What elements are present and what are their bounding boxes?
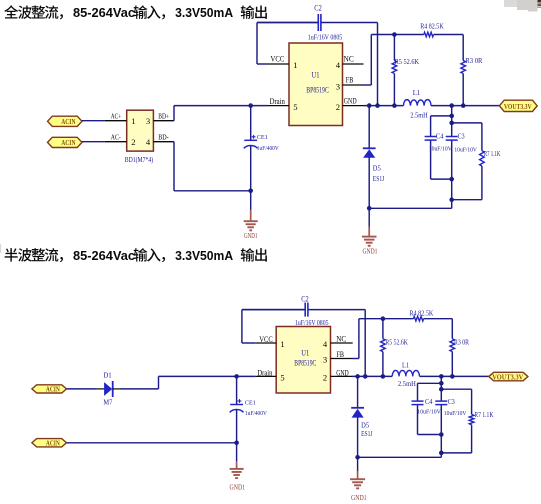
svg-text:1: 1 [280,339,284,349]
svg-text:4: 4 [146,137,151,147]
svg-text:GND: GND [344,96,357,105]
wire bottom rail bottom-circuit [358,456,442,458]
svg-text:1uF/400V: 1uF/400V [245,410,267,417]
ground GND1 under CE1 bottom [236,443,238,461]
svg-text:3: 3 [336,81,340,91]
C filter branch bottom [440,376,442,383]
resistor R7 bottom (1.1K) [471,389,473,414]
svg-text:2.5mH: 2.5mH [398,380,416,388]
junction C4 bottom [449,177,454,182]
resistor R7 (1.1K) [481,123,483,151]
wire ACIN2 rail [67,442,237,444]
svg-text:D1: D1 [103,372,112,380]
svg-text:10uF/10V: 10uF/10V [444,410,467,417]
svg-text:2.5mH: 2.5mH [410,112,427,120]
wire C2 right to rail [377,23,379,106]
port ACIN top1 [48,116,83,126]
op-amp U1 bottom (BP8519C) [276,327,330,394]
capacitor C2 bottom [242,309,305,311]
diode D1 (M7) [97,388,105,390]
svg-text:D5: D5 [373,165,381,173]
svg-text:FB: FB [337,350,345,359]
port VOUT3.3V top [499,100,537,111]
ground GND1 under D5 top [368,208,370,226]
capacitor C2 top [257,22,318,24]
svg-text:D5: D5 [361,422,369,430]
U1 pin 5 Drain [268,105,289,107]
wire VCC net bottom [242,342,255,344]
diode D5 top (ES1J) [368,106,370,149]
junction R5 top [392,32,397,37]
ground GND1 under CE1 [250,191,252,210]
junction D5 bottom [367,206,372,211]
U1b pin 3 FB [331,358,352,360]
wire L1 to VOUT bottom [420,375,489,377]
svg-text:C2: C2 [301,295,309,304]
capacitor C4 top (10uF/10V) [430,116,432,136]
wire ACIN1 to D1 [67,388,97,390]
svg-text:R5 52.6K: R5 52.6K [385,338,408,346]
junction C2/rail bottom [363,374,368,379]
junction C2/rail [375,103,380,108]
U1b pin 4 NC [331,342,353,344]
port ACIN bot2 [32,439,67,447]
U1 pin 3 FB [343,84,364,86]
svg-text:VOUT3.3V: VOUT3.3V [492,373,523,382]
svg-text:NC: NC [336,334,346,343]
capacitor C4 bottom (10uF/10V) [417,383,419,400]
capacitor C3 bottom (10uF/10V) [440,383,442,400]
junction R5 bottom-ckt [381,374,386,379]
diode D5 bottom (ES1J) [357,376,359,407]
svg-text:VOUT3.3V: VOUT3.3V [504,102,532,111]
svg-text:5: 5 [293,102,297,112]
wire bottom rail top-circuit [369,207,452,209]
svg-text:2: 2 [323,373,327,383]
svg-text:AC+: AC+ [111,112,122,120]
svg-text:2: 2 [131,137,135,147]
U1 pin 2 GND [343,105,364,107]
svg-text:VCC: VCC [259,335,273,344]
U1 pin 4 NC [343,63,364,65]
svg-text:R7 1.1K: R7 1.1K [474,411,493,419]
junction C4 top [449,114,454,119]
wire BD+ to Drain node [173,106,175,121]
resistor R5 bottom (52.6K) [382,319,384,339]
screen artifact top-right [504,0,541,12]
junction D5 bottom rail [355,455,360,460]
junction CE1 bottom [248,189,253,194]
svg-text:GND: GND [336,369,349,378]
svg-text:CE1: CE1 [257,134,268,141]
svg-text:4: 4 [336,60,341,70]
svg-text:R3 0R: R3 0R [465,57,482,65]
svg-text:M7: M7 [103,399,112,407]
junction R3 bottom [461,103,466,108]
wire FB riser [364,84,372,86]
wire D1 to Drain [121,388,159,390]
svg-text:C4: C4 [436,134,444,141]
title half-wave [5,248,267,262]
svg-text:1uF/400V: 1uF/400V [257,145,279,152]
wire bottom left rail [174,190,251,192]
U1 pin 1 VCC [268,63,289,65]
svg-text:R7 1.1K: R7 1.1K [484,150,501,158]
svg-text:1uF/16V 0805: 1uF/16V 0805 [295,319,329,327]
junction D5 [367,103,372,108]
svg-text:5: 5 [280,373,284,383]
junction R7 bottom bottom-ckt [439,451,444,456]
svg-text:3: 3 [323,354,327,364]
svg-text:10uF/10V: 10uF/10V [417,409,441,416]
svg-text:U1: U1 [301,348,309,358]
wire FB riser bottom [352,358,359,360]
svg-text:BP8519C: BP8519C [306,86,329,95]
svg-text:AC-: AC- [111,133,121,141]
junction R5 top bottom-ckt [381,316,386,321]
svg-text:R5 52.6K: R5 52.6K [395,58,420,66]
wire BD- down [173,142,175,191]
svg-text:BD1(M7*4): BD1(M7*4) [125,155,154,164]
svg-text:L1: L1 [413,88,421,97]
wire GND pin rail bottom [352,375,393,377]
wire L1 to VOUT [431,105,499,107]
svg-text:L1: L1 [402,360,409,369]
junction R7 bottom [449,197,454,202]
svg-text:ACIN: ACIN [46,384,60,393]
svg-text:GND1: GND1 [351,495,367,502]
title full-wave [4,5,267,19]
wire VCC net [257,63,268,65]
svg-text:R4 82.5K: R4 82.5K [409,310,433,318]
svg-text:2: 2 [336,102,340,112]
svg-text:3: 3 [146,116,150,126]
svg-text:C3: C3 [458,134,466,141]
resistor R3 bottom (0R) [451,319,453,339]
svg-text:4: 4 [323,339,328,349]
U1b pin 5 Drain [255,375,276,377]
svg-text:C2: C2 [314,4,322,13]
wire ACIN1 to BD1 [82,120,105,122]
resistor R4 bottom (82.5K) [359,318,414,320]
inductor L1 bottom (2.5mH) [392,370,419,376]
svg-text:10uF/10V: 10uF/10V [454,147,477,154]
junction CE1 bot bottom [234,441,239,446]
svg-text:FB: FB [346,75,354,84]
junction R7 top bottom-ckt [439,387,444,392]
svg-text:1: 1 [293,60,297,70]
svg-text:Drain: Drain [270,97,285,106]
svg-text:ACIN: ACIN [61,117,76,126]
bridge rectifier BD1 [105,110,174,151]
junction C branch [449,103,454,108]
svg-text:ACIN: ACIN [46,438,60,447]
junction CE1 bot top [234,374,239,379]
svg-text:1uF/16V 0805: 1uF/16V 0805 [308,34,343,42]
svg-text:BD-: BD- [158,133,169,141]
wire C2 right to rail bottom [364,310,366,377]
resistor R3 (0R) [462,35,464,61]
svg-text:85-264Vac: 85-264Vac [73,248,135,263]
svg-text:ES1J: ES1J [373,175,385,183]
junction C branch bottom [439,374,444,379]
U1b pin 2 GND [331,375,352,377]
port VOUT3.3V bottom [489,372,528,381]
junction R7 top [449,121,454,126]
inductor L1 top (2.5mH) [404,100,432,106]
svg-text:BP8519C: BP8519C [294,358,316,367]
junction R3 bottom bottom-ckt [450,374,455,379]
svg-text:R4 82.5K: R4 82.5K [420,23,444,31]
capacitor CE1 top [250,106,252,141]
junction R5 bottom [392,103,397,108]
junction D5 bottom-ckt [355,374,360,379]
svg-text:ACIN: ACIN [61,138,76,147]
svg-text:85-264Vac: 85-264Vac [73,5,135,20]
capacitor CE1 bottom [236,376,238,404]
svg-text:C4: C4 [425,399,433,406]
svg-text:GND1: GND1 [244,233,258,240]
C filter branch top [451,106,453,116]
svg-text:NC: NC [344,54,355,63]
svg-text:C3: C3 [448,399,456,406]
junction C4 bottom bottom-ckt [439,432,444,437]
resistor R5 (52.6K) [393,35,395,61]
svg-text:10uF/10V: 10uF/10V [429,146,452,153]
svg-text:Drain: Drain [257,369,272,378]
svg-text:ES1J: ES1J [361,430,373,438]
junction CE1 top [248,103,253,108]
svg-text:1: 1 [131,116,135,126]
svg-text:3.3V50mA: 3.3V50mA [175,248,233,263]
svg-text:BD+: BD+ [158,112,169,120]
port ACIN bot1 [32,385,67,393]
svg-text:U1: U1 [312,70,320,80]
svg-text:GND1: GND1 [230,485,246,492]
wire ACIN2 to BD1 [82,141,105,143]
resistor R4 (82.5K) [371,34,424,36]
svg-text:GND1: GND1 [363,249,378,256]
port ACIN top2 [48,137,83,147]
svg-text:CE1: CE1 [245,399,256,406]
wire GND pin rail [364,105,404,107]
svg-text:VCC: VCC [271,55,285,64]
U1b pin 1 VCC [255,342,276,344]
junction C4 top bottom-ckt [439,381,444,386]
capacitor C3 top (10uF/10V) [451,116,453,136]
ground GND1 under D5 bottom [357,457,359,471]
op-amp U1 top (BP8519C) [289,43,343,126]
left edge artifact [0,244,1,253]
svg-text:3.3V50mA: 3.3V50mA [175,5,233,20]
svg-text:R3 0R: R3 0R [454,338,469,346]
